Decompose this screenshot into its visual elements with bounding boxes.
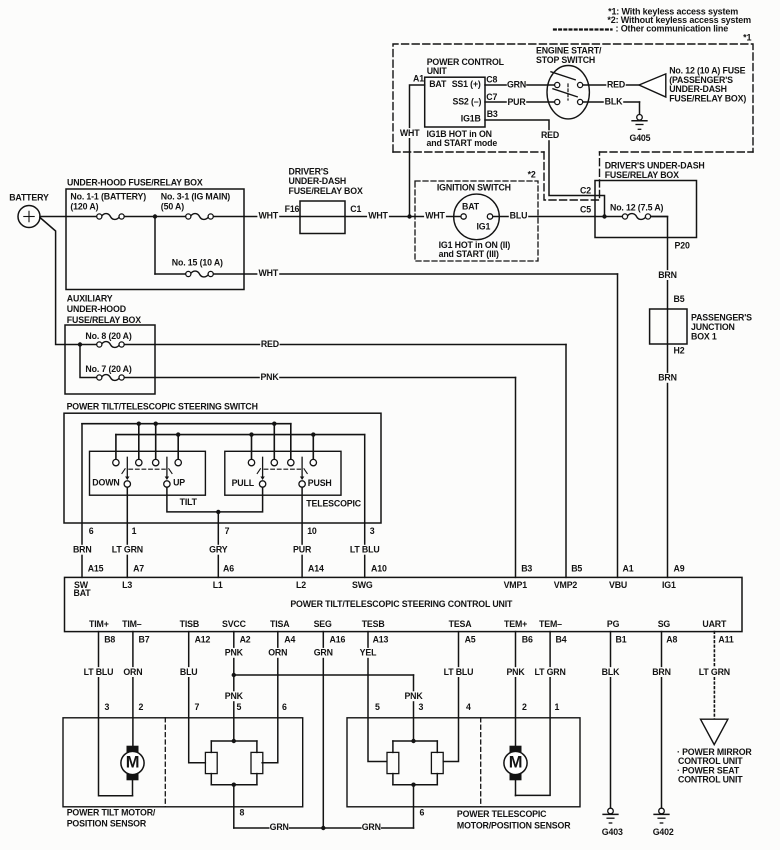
svg-text:2: 2 — [522, 702, 527, 712]
svg-text:and START (III): and START (III) — [439, 249, 499, 259]
svg-text:B4: B4 — [556, 635, 567, 645]
svg-text:FUSE/RELAY BOX: FUSE/RELAY BOX — [289, 186, 363, 196]
svg-text:RED: RED — [541, 130, 559, 140]
svg-text:BAT: BAT — [74, 588, 92, 598]
svg-text:BOX 1: BOX 1 — [691, 331, 717, 341]
svg-text:STOP SWITCH: STOP SWITCH — [536, 55, 595, 65]
svg-text:TISB: TISB — [180, 619, 199, 629]
svg-text:No. 1-1 (BATTERY): No. 1-1 (BATTERY) — [70, 192, 146, 202]
svg-text:WHT: WHT — [368, 211, 388, 221]
svg-text:A5: A5 — [465, 635, 476, 645]
svg-text:GRN: GRN — [362, 822, 381, 832]
svg-text:PNK: PNK — [404, 691, 423, 701]
svg-text:A4: A4 — [284, 635, 295, 645]
svg-text:IG1: IG1 — [477, 222, 491, 232]
svg-text:PNK: PNK — [260, 372, 279, 382]
svg-text:DRIVER'S: DRIVER'S — [289, 166, 329, 176]
svg-text:No. 8 (20 A): No. 8 (20 A) — [85, 331, 131, 341]
svg-text:VMP1: VMP1 — [504, 580, 528, 590]
svg-text:MOTOR/POSITION SENSOR: MOTOR/POSITION SENSOR — [457, 820, 571, 830]
svg-text:B1: B1 — [616, 635, 627, 645]
svg-text:PNK: PNK — [225, 648, 244, 658]
svg-text:10: 10 — [307, 526, 317, 536]
svg-text:SG: SG — [658, 619, 671, 629]
svg-text:A16: A16 — [330, 635, 346, 645]
svg-text:IGNITION SWITCH: IGNITION SWITCH — [437, 183, 511, 193]
svg-text:BAT: BAT — [462, 202, 480, 212]
svg-text:M: M — [126, 754, 140, 772]
svg-text:UP: UP — [173, 478, 185, 488]
svg-text:FUSE/RELAY BOX): FUSE/RELAY BOX) — [669, 93, 746, 103]
svg-text:L1: L1 — [213, 580, 223, 590]
svg-text:UNDER-DASH: UNDER-DASH — [289, 176, 347, 186]
svg-text:B3: B3 — [487, 109, 498, 119]
svg-text:A11: A11 — [718, 635, 733, 645]
svg-text:C8: C8 — [486, 75, 497, 85]
svg-text:A12: A12 — [195, 635, 211, 645]
svg-text:TESA: TESA — [449, 619, 473, 629]
svg-text:TEM–: TEM– — [539, 619, 562, 629]
svg-text:*1: *1 — [743, 32, 751, 42]
svg-text:2: 2 — [139, 702, 144, 712]
svg-text:TEM+: TEM+ — [504, 619, 527, 629]
svg-text:POWER TILT/TELESCOPIC STEERING: POWER TILT/TELESCOPIC STEERING SWITCH — [67, 402, 258, 412]
svg-text:UART: UART — [702, 619, 727, 629]
svg-text:UNDER-HOOD: UNDER-HOOD — [67, 304, 126, 314]
svg-text:No. 15 (10 A): No. 15 (10 A) — [172, 258, 223, 268]
svg-text:AUXILIARY: AUXILIARY — [67, 294, 113, 304]
svg-text:C2: C2 — [580, 185, 591, 195]
svg-text:BLK: BLK — [602, 667, 620, 677]
svg-text:No. 12 (7.5 A): No. 12 (7.5 A) — [610, 203, 664, 213]
svg-text:BRN: BRN — [658, 270, 677, 280]
svg-text:(50 A): (50 A) — [161, 202, 184, 212]
svg-text:(120 A): (120 A) — [70, 202, 98, 212]
svg-text:POWER TILT/TELESCOPIC STEERING: POWER TILT/TELESCOPIC STEERING CONTROL U… — [290, 599, 513, 609]
svg-text:A10: A10 — [371, 564, 387, 574]
svg-text:M: M — [509, 754, 523, 772]
svg-text:WHT: WHT — [400, 128, 420, 138]
svg-text:L3: L3 — [122, 580, 132, 590]
svg-text:POWER TELESCOPIC: POWER TELESCOPIC — [457, 809, 547, 819]
svg-text:P20: P20 — [675, 241, 690, 251]
svg-text:7: 7 — [225, 526, 230, 536]
svg-text:LT BLU: LT BLU — [444, 667, 474, 677]
svg-text:C7: C7 — [486, 92, 497, 102]
svg-text:7: 7 — [195, 702, 200, 712]
svg-text:B7: B7 — [139, 635, 150, 645]
svg-text:4: 4 — [466, 702, 471, 712]
svg-text:WHT: WHT — [259, 268, 279, 278]
svg-text:5: 5 — [237, 702, 242, 712]
svg-text:C5: C5 — [580, 204, 591, 214]
svg-text:CONTROL UNIT: CONTROL UNIT — [678, 774, 743, 784]
svg-text:UNIT: UNIT — [427, 66, 448, 76]
svg-text:and START mode: and START mode — [427, 138, 498, 148]
svg-text:L2: L2 — [296, 580, 306, 590]
svg-text:PNK: PNK — [225, 691, 244, 701]
svg-text:6: 6 — [282, 702, 287, 712]
svg-text:LT GRN: LT GRN — [699, 667, 730, 677]
svg-text:H2: H2 — [674, 346, 685, 356]
svg-text:RED: RED — [607, 80, 625, 90]
svg-text:3: 3 — [419, 702, 424, 712]
svg-text:A1: A1 — [623, 564, 634, 574]
svg-text:G403: G403 — [602, 827, 623, 837]
svg-text:PG: PG — [607, 619, 620, 629]
svg-text:*2: *2 — [528, 170, 536, 180]
svg-text:LT GRN: LT GRN — [112, 545, 143, 555]
svg-text:A2: A2 — [240, 635, 251, 645]
svg-text:SS2 (–): SS2 (–) — [453, 97, 482, 107]
svg-text:SWG: SWG — [352, 580, 373, 590]
svg-text:TISA: TISA — [270, 619, 290, 629]
svg-text:: Other communication line: : Other communication line — [616, 24, 729, 34]
svg-text:5: 5 — [375, 702, 380, 712]
svg-text:B5: B5 — [571, 564, 582, 574]
svg-text:A6: A6 — [223, 564, 234, 574]
svg-text:YEL: YEL — [360, 648, 377, 658]
svg-text:A15: A15 — [88, 564, 104, 574]
svg-text:PULL: PULL — [232, 478, 255, 488]
svg-text:3: 3 — [105, 702, 110, 712]
svg-text:6: 6 — [420, 808, 425, 818]
svg-text:WHT: WHT — [425, 211, 445, 221]
svg-text:No. 7 (20 A): No. 7 (20 A) — [85, 364, 131, 374]
svg-text:BATTERY: BATTERY — [9, 193, 49, 203]
svg-text:POSITION SENSOR: POSITION SENSOR — [67, 819, 147, 829]
svg-text:IG1B: IG1B — [461, 113, 481, 123]
svg-text:WHT: WHT — [259, 211, 279, 221]
svg-text:UNDER-HOOD FUSE/RELAY BOX: UNDER-HOOD FUSE/RELAY BOX — [67, 178, 203, 188]
svg-text:RED: RED — [261, 339, 279, 349]
svg-text:GRN: GRN — [507, 80, 526, 90]
svg-text:LT GRN: LT GRN — [535, 667, 566, 677]
svg-text:1: 1 — [132, 526, 137, 536]
svg-text:A7: A7 — [133, 564, 144, 574]
svg-text:A14: A14 — [308, 564, 324, 574]
svg-text:PUR: PUR — [507, 97, 526, 107]
svg-text:BLU: BLU — [180, 667, 198, 677]
svg-text:BRN: BRN — [73, 545, 92, 555]
svg-text:No. 3-1 (IG MAIN): No. 3-1 (IG MAIN) — [161, 192, 231, 202]
svg-text:F16: F16 — [285, 204, 300, 214]
svg-text:TELESCOPIC: TELESCOPIC — [306, 499, 362, 509]
svg-text:BRN: BRN — [658, 373, 677, 383]
svg-text:IG1: IG1 — [662, 580, 676, 590]
svg-text:1: 1 — [555, 702, 560, 712]
svg-text:G402: G402 — [653, 827, 674, 837]
svg-text:B3: B3 — [521, 564, 532, 574]
svg-text:B6: B6 — [522, 635, 533, 645]
svg-text:SVCC: SVCC — [222, 619, 247, 629]
svg-text:VBU: VBU — [609, 580, 627, 590]
svg-text:TIM–: TIM– — [122, 619, 142, 629]
svg-text:SEG: SEG — [314, 619, 332, 629]
svg-text:TILT: TILT — [180, 497, 198, 507]
svg-text:A9: A9 — [674, 564, 685, 574]
svg-text:B5: B5 — [674, 294, 685, 304]
svg-text:6: 6 — [89, 526, 94, 536]
svg-text:VMP2: VMP2 — [554, 580, 578, 590]
svg-text:FUSE/RELAY BOX: FUSE/RELAY BOX — [67, 315, 141, 325]
svg-text:PUSH: PUSH — [308, 478, 332, 488]
svg-text:A13: A13 — [373, 635, 389, 645]
svg-text:GRN: GRN — [270, 822, 289, 832]
svg-text:POWER TILT MOTOR/: POWER TILT MOTOR/ — [67, 808, 156, 818]
svg-text:GRN: GRN — [314, 648, 333, 658]
svg-text:SS1 (+): SS1 (+) — [452, 79, 481, 89]
svg-text:LT BLU: LT BLU — [84, 667, 114, 677]
svg-text:TIM+: TIM+ — [89, 619, 109, 629]
svg-text:ORN: ORN — [123, 667, 142, 677]
svg-text:ORN: ORN — [268, 648, 287, 658]
svg-text:PUR: PUR — [293, 545, 312, 555]
svg-text:G405: G405 — [630, 133, 651, 143]
svg-text:DOWN: DOWN — [92, 478, 119, 488]
svg-text:3: 3 — [370, 526, 375, 536]
svg-text:BLK: BLK — [605, 97, 623, 107]
svg-text:BAT: BAT — [429, 79, 447, 89]
svg-text:FUSE/RELAY BOX: FUSE/RELAY BOX — [605, 170, 679, 180]
svg-text:A8: A8 — [666, 635, 677, 645]
svg-text:LT BLU: LT BLU — [350, 545, 380, 555]
svg-text:GRY: GRY — [209, 545, 228, 555]
svg-text:C1: C1 — [350, 204, 361, 214]
svg-text:8: 8 — [240, 808, 245, 818]
svg-text:B8: B8 — [104, 635, 115, 645]
svg-text:BRN: BRN — [652, 667, 671, 677]
svg-text:PNK: PNK — [506, 667, 525, 677]
svg-text:TESB: TESB — [362, 619, 385, 629]
svg-text:BLU: BLU — [510, 211, 528, 221]
svg-text:A1: A1 — [413, 74, 424, 84]
